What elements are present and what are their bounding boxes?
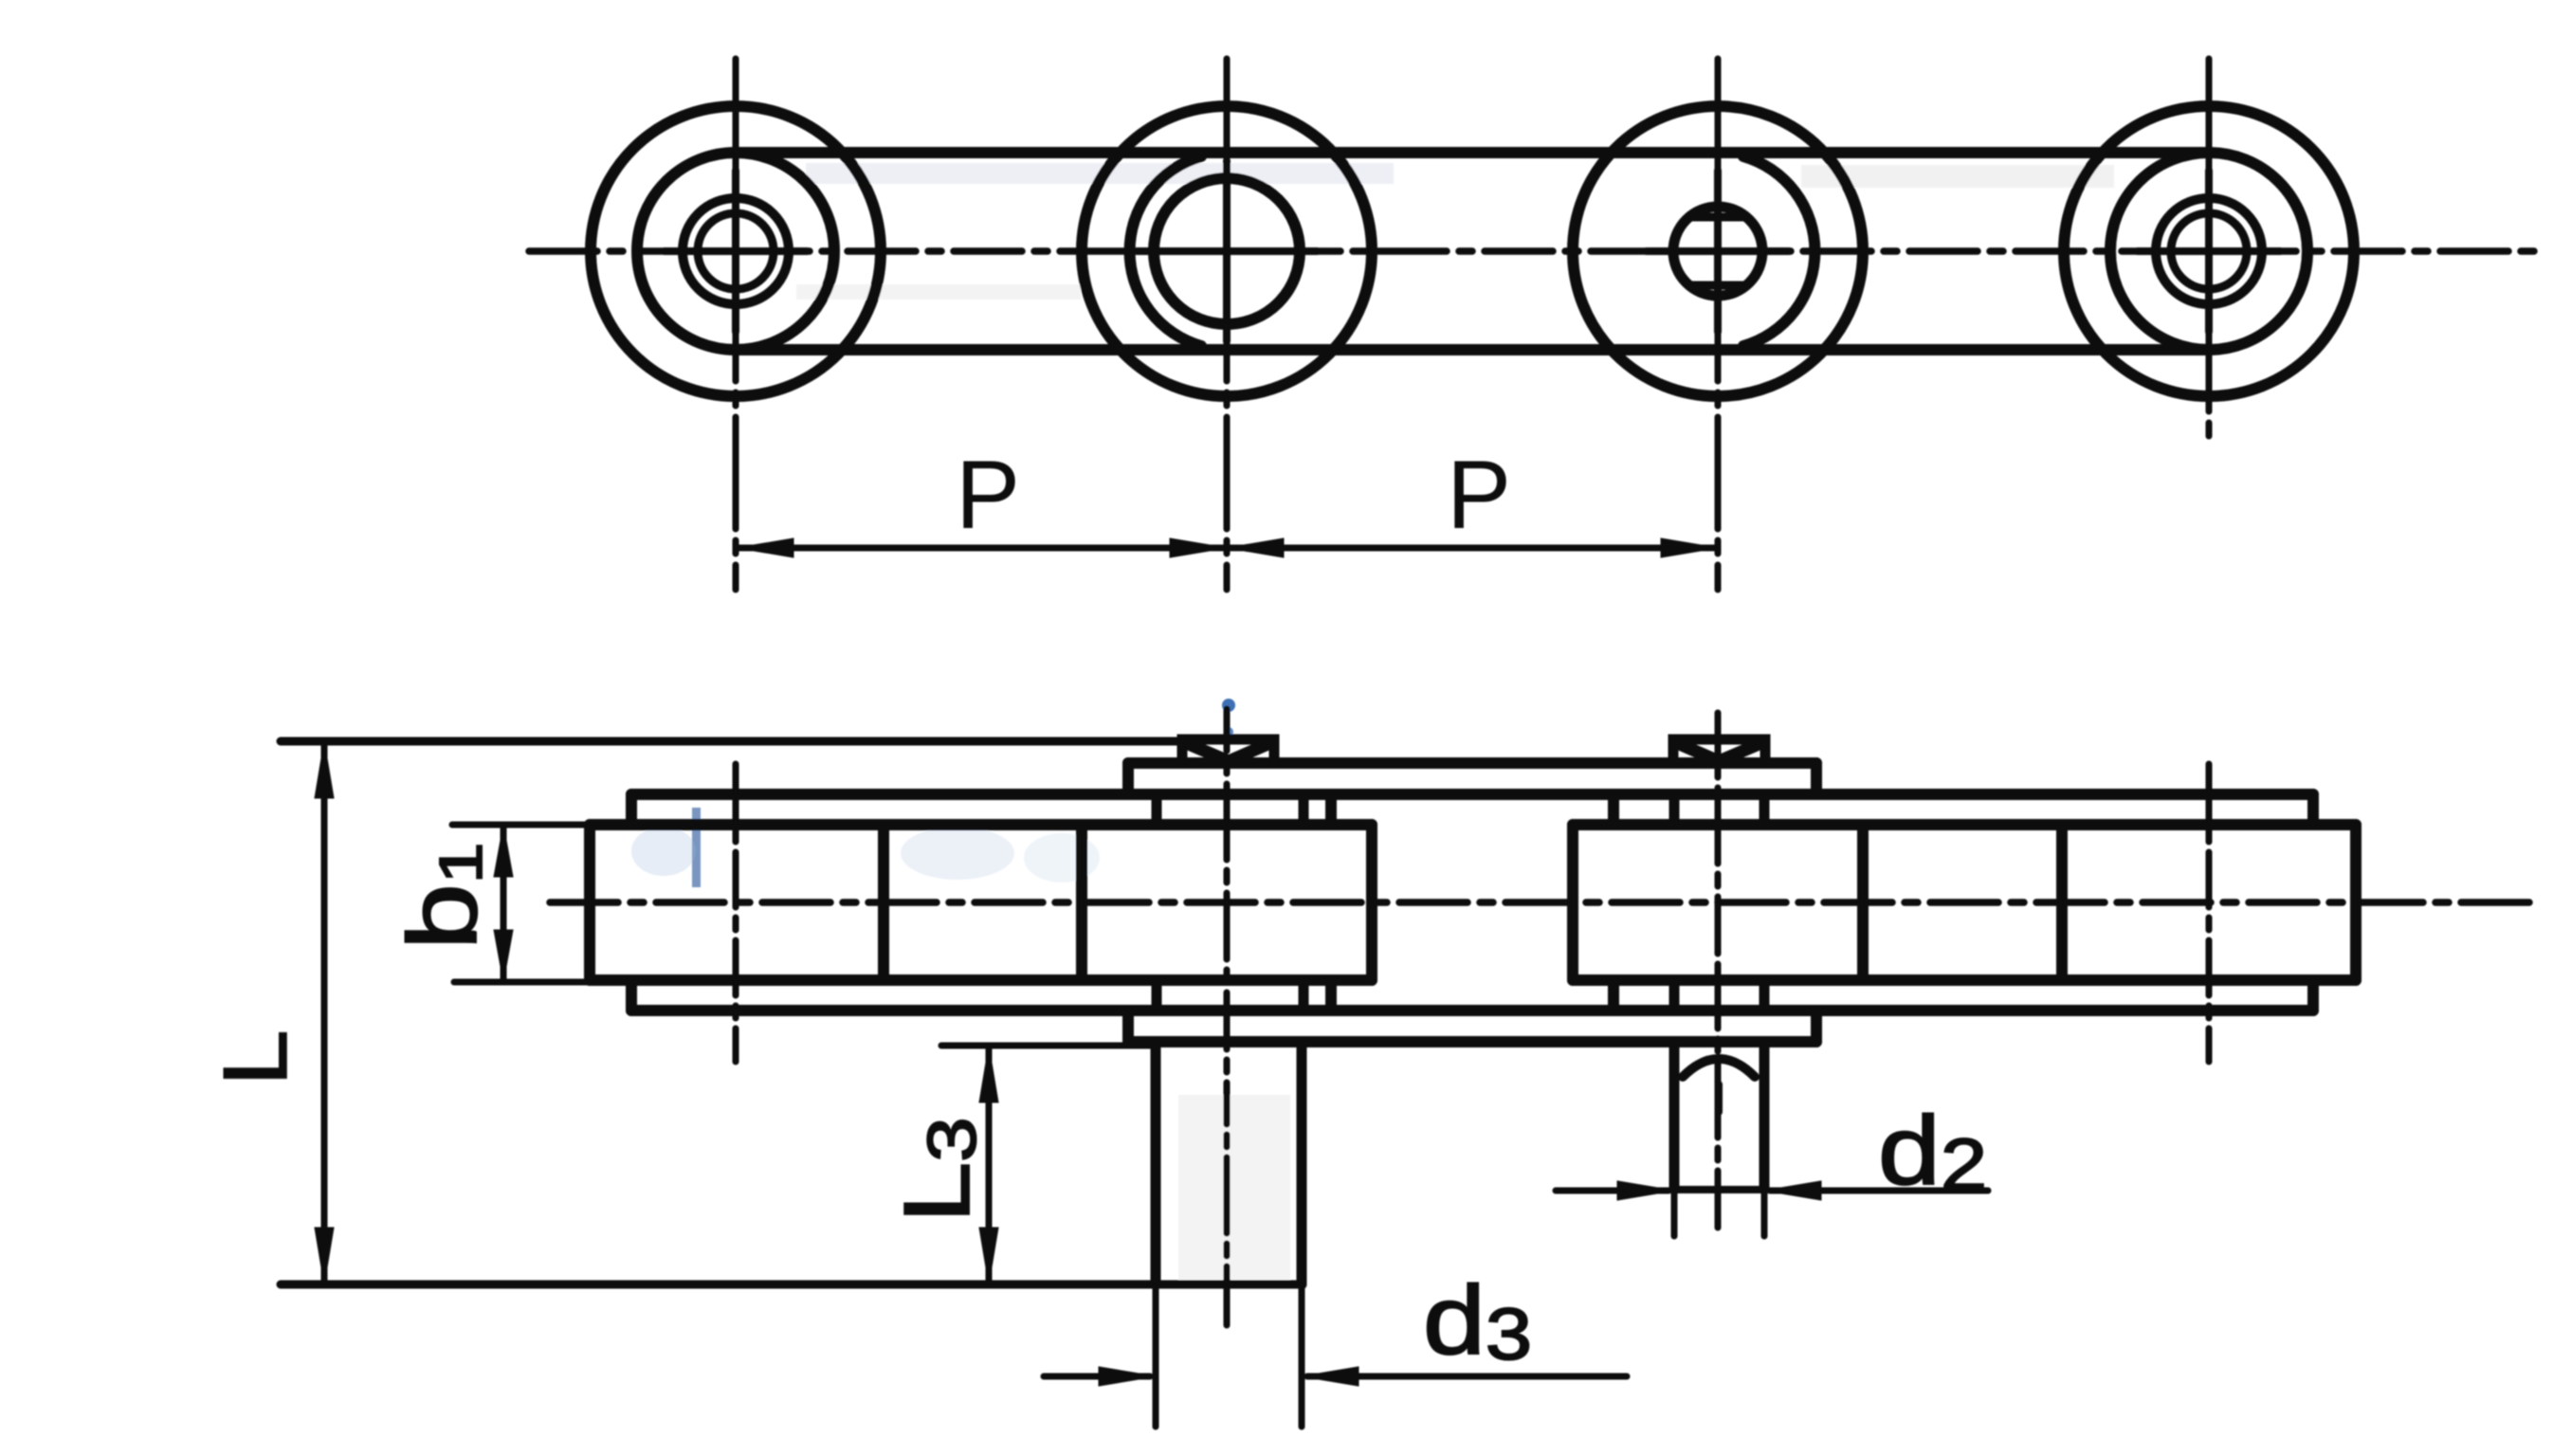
roller 2 left end [1076,825,1087,980]
pin 1 outer circle [683,198,789,304]
pin d2 dome head [1683,1059,1755,1077]
attachment plate right end caps [1811,763,1822,1042]
arrow P left at pin2 [1227,538,1284,557]
centerline vertical pin 2 (plan) [1224,709,1231,1325]
arrow P right at pin3 [1661,538,1718,557]
scan streak artifacts top band [796,163,2114,300]
extended pin d2 extension lines [1674,1192,1764,1236]
dimension line P (pin1 to pin3) [737,545,1718,552]
pin 4 outer circle [2156,198,2262,304]
roller bottom / inner plate bottom inner edge [590,974,2356,986]
arrow d3 left [1099,1367,1156,1386]
arrow L3 bottom [979,1228,998,1284]
attachment plate top edge [1128,757,1816,769]
extended pin d3 sides [1156,1042,1302,1284]
roller 3 outer circle [1573,106,1863,396]
pin d2 lower ends [1674,980,1764,1010]
scan artifacts plan view [631,699,1290,1280]
b1 dimension line [501,825,507,982]
extended pin d2 sides [1674,1042,1764,1190]
arrow L top [315,741,334,798]
pin 4 inner circle [2171,213,2247,289]
crosshair pin 1 [665,171,807,332]
d3 dimension line right [1307,1374,1627,1380]
arrow d2 right [1764,1181,1821,1200]
centerline vertical pin 2 [1224,59,1231,590]
plate end arc pin 3 (right side) [1743,156,1814,346]
centerline vertical pin 3 (plan) [1715,713,1722,1235]
L3 extension line [941,1043,1152,1049]
arrow b1 bottom [494,930,513,982]
roller 4 right end [2350,825,2362,980]
svg-text:P: P [956,441,1020,549]
b1 extension line top [452,822,586,828]
L3 dimension line [986,1046,993,1284]
roller 1 right end [878,825,889,980]
centerline horizontal (top view) [529,247,2541,255]
bush d3 upper ends [1157,794,1304,825]
extended pin d2 end face [1674,1186,1764,1193]
centerline vertical pin 1 (plan) [733,764,739,1062]
d2 dimension line left [1556,1188,1669,1194]
pin 3 flat top [1691,213,1744,222]
plate end circle pin 4 [2110,153,2307,350]
link plate top edge [736,147,2209,158]
link plate bottom edge [736,344,2209,355]
centerline vertical pin 4 [2206,59,2213,446]
arrow L3 top [979,1046,998,1102]
inner link 1-2 left end caps [626,794,637,1010]
arrow P left at pin1 [737,538,793,557]
svg-text:L: L [204,1029,305,1086]
roller 3 right end [1857,825,1869,980]
centerline horizontal (plan view) [550,899,2541,906]
rivet head pin 2 [1182,739,1274,763]
inner link 1-2 right end caps [1325,794,1337,1010]
inner plate bottom outer edge [631,1005,2313,1016]
plate end arc pin 2 (left side) [1130,156,1201,346]
roller 4 outer circle [2064,106,2354,396]
plate end circle pin 1 [637,153,834,350]
roller 1 outer circle [591,106,881,396]
roller 2 outer circle [1082,106,1372,396]
centerline vertical pin 4 (plan) [2206,764,2213,1062]
crosshair pin 4 [2138,171,2280,332]
d3 dimension line left [1044,1374,1150,1380]
inner link 3-4 left end caps [1608,794,1619,1010]
pin 3 flat bottom [1691,282,1744,290]
arrow d2 left [1617,1181,1674,1200]
roller 2 right end [1366,825,1377,980]
attachment plate left end caps [1122,763,1134,1042]
roller 3 left end [1567,825,1578,980]
pin 3 circle [1673,207,1762,296]
rivet head pin 3 [1673,739,1765,763]
roller 4 left end [2056,825,2068,980]
svg-text:P: P [1447,441,1511,549]
b1 extension line bottom [454,979,628,986]
centerline vertical pin 3 [1715,59,1722,590]
inner plate top inner edge / roller top [590,819,2356,830]
d2 dimension line right [1770,1188,1988,1194]
bush d3 lower ends [1157,980,1304,1010]
crosshair pin 2 [1137,161,1317,341]
L bottom datum line [281,1281,1302,1289]
arrow L bottom [315,1228,334,1284]
L top datum line [281,737,1182,746]
dimension L vertical line [321,741,328,1284]
pin 1 inner circle [698,213,774,289]
crosshair pin 3 [1647,171,1789,332]
arrow d3 right [1302,1367,1359,1386]
roller 1 left end [584,825,595,980]
centerline vertical pin 1 [733,59,739,590]
inner link 3-4 right end caps [2307,794,2319,1010]
bush circle pin 2 [1154,178,1300,324]
attachment plate bottom edge [1128,1036,1816,1047]
arrow b1 top [494,825,513,877]
arrow P right at pin2 [1170,538,1227,557]
extended pin d3 extension lines [1156,1289,1302,1427]
inner plate top outer edge [631,789,2313,800]
pin d2 upper ends [1674,794,1764,825]
